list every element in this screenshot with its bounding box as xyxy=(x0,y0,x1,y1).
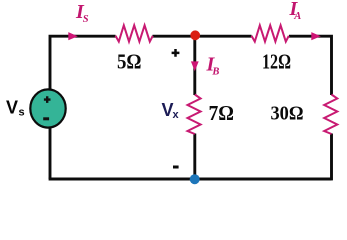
resistor R2 12ohm xyxy=(252,25,289,41)
wire right-bottom segment xyxy=(330,134,333,181)
node A top junction xyxy=(190,30,200,40)
svg-text:x: x xyxy=(173,109,180,121)
resistor R4 30ohm xyxy=(324,95,337,135)
wire top-left segment xyxy=(50,36,116,89)
wire bottom segment xyxy=(49,178,332,181)
svg-text:30Ω: 30Ω xyxy=(271,103,304,125)
current arrow IA xyxy=(311,32,321,40)
resistor R1 5ohm xyxy=(116,25,153,41)
wire left-bottom segment xyxy=(49,128,52,180)
wire middle branch upper xyxy=(193,36,196,95)
polarity minus for Vx xyxy=(173,166,179,169)
voltage source VS xyxy=(30,89,65,127)
svg-text:S: S xyxy=(83,14,89,25)
polarity plus for Vx xyxy=(172,49,180,57)
current arrow IS xyxy=(68,32,78,40)
svg-text:12Ω: 12Ω xyxy=(262,49,291,73)
wire top-right segment xyxy=(289,36,332,95)
resistor R3 7ohm xyxy=(188,95,201,135)
current arrow IB xyxy=(191,61,199,71)
svg-text:7Ω: 7Ω xyxy=(209,101,235,125)
svg-text:s: s xyxy=(19,107,25,119)
wire top-middle segment xyxy=(153,35,252,38)
svg-text:B: B xyxy=(211,67,219,78)
wire middle branch lower xyxy=(193,134,196,180)
node B bottom junction xyxy=(190,174,200,184)
svg-text:5Ω: 5Ω xyxy=(117,49,142,73)
svg-text:V: V xyxy=(6,98,18,118)
svg-text:A: A xyxy=(293,11,301,22)
